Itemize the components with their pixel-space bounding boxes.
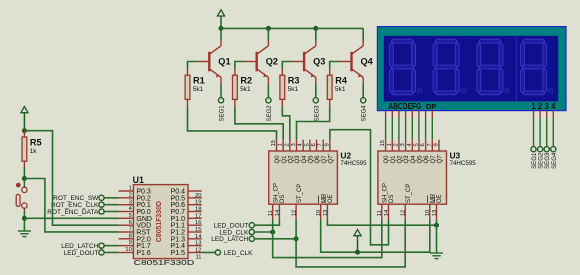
svg-text:3: 3 [129,199,132,205]
pin 17 U1 P0.7 [188,211,202,213]
svg-text:5: 5 [413,143,419,146]
display digit 1 [390,39,422,94]
pin 18 U1 P0.6 [188,204,202,206]
svg-text:11: 11 [195,254,201,260]
junction button / GND [22,216,27,221]
terminal LED_LATCH [99,243,104,248]
svg-text:ST_CP: ST_CP [406,184,412,203]
svg-text:5: 5 [129,213,132,219]
display digit pin 1 to terminal SEG1 [533,111,535,118]
svg-text:14: 14 [384,209,390,216]
svg-text:P1.5: P1.5 [171,250,186,257]
svg-text:5k1: 5k1 [193,86,204,93]
wire rail to Q1 collector [220,28,222,40]
svg-text:U1: U1 [133,175,144,185]
terminal SEG1 right [531,147,536,152]
svg-text:8: 8 [129,233,132,239]
svg-text:3: 3 [545,102,550,111]
ground right [430,253,443,259]
microcontroller U1 C8051F330D [133,185,188,259]
svg-text:DP: DP [426,102,436,111]
svg-text:Q4: Q4 [302,155,308,164]
wire R5 to button [23,168,25,179]
pin 2 U1 P0.2 [119,197,134,199]
svg-text:11: 11 [268,210,274,216]
svg-text:15: 15 [380,140,386,146]
terminal SEG2 right [538,147,543,152]
svg-text:C8051F330D: C8051F330D [156,201,163,242]
svg-text:LED_LATCH: LED_LATCH [211,236,248,243]
power VCC left [21,107,28,131]
svg-text:Q1: Q1 [282,155,288,164]
wire LED_LATCH bus to U3 ST_CP [296,220,405,267]
pin 11 U1 P1.5 [188,252,202,254]
display pin DP to U3 [431,111,433,118]
pin 5 U2 Q5 [309,140,311,151]
svg-text:R1: R1 [193,76,205,86]
wire LED_LATCH to U1 [104,245,118,247]
svg-text:12: 12 [401,210,407,216]
wire R4 to U2 Q3 [297,106,330,140]
wire U2 OE to U3 OE [327,220,436,225]
wire ROT_ENC_SW to U1 [104,197,118,199]
wire rail to Q4 collector [362,28,364,40]
pin 8 U1 P2.0 [119,238,134,240]
wire LED_CLK bus to U3 SH_CP [273,220,382,258]
pin 1 U1 P0.3 [119,190,134,192]
svg-text:OE: OE [437,194,443,203]
svg-text:Q2: Q2 [288,155,294,164]
display 4-digit 7-segment [377,27,566,111]
pin 3 U3 Q3 [405,140,407,151]
svg-text:5k1: 5k1 [288,86,299,93]
svg-text:Q7': Q7' [328,154,334,163]
svg-text:SEG1: SEG1 [532,152,538,169]
pin 14 U2 DS [278,204,280,220]
svg-text:Q3: Q3 [404,155,410,164]
wire U2 MR to U3 MR VCC rail [321,220,430,252]
svg-text:13: 13 [323,210,329,216]
pin 7 U2 Q7 [322,140,324,151]
resistor R2 [233,69,238,107]
wire VCC to U1 VDD [24,131,118,225]
pin 7 U3 Q7 [431,140,433,151]
pin 14 U3 DS [388,204,390,220]
wire to U1 RST [24,179,118,232]
svg-text:OE: OE [328,194,334,203]
wire R2 to U2 Q1 [235,106,283,140]
svg-text:10: 10 [425,210,431,216]
pin 19 U1 P0.5 [188,197,202,199]
wire VCC rail [221,27,363,29]
display digit pin 4 to terminal SEG4 [552,111,554,118]
pin 16 U1 P1.0 [188,217,202,219]
wire Q4 emitter to SEG4 [362,85,364,98]
svg-text:2: 2 [284,143,290,146]
svg-text:SH_CP: SH_CP [273,183,279,203]
wire U3 OE to ground [436,220,438,253]
terminal SEG1 [218,98,223,103]
terminal SEG4 [361,98,366,103]
power VCC top [217,10,224,29]
wire rail to Q2 collector [267,28,269,40]
svg-text:Q7': Q7' [438,154,444,163]
display pin D to U3 [405,111,407,118]
display pin C to U3 [398,111,400,118]
svg-text:5k1: 5k1 [240,86,251,93]
svg-text:74HC595: 74HC595 [450,160,477,167]
svg-text:6: 6 [311,143,317,146]
svg-text:4: 4 [551,102,556,111]
pin 3 U2 Q3 [296,140,298,151]
pin 11 U2 SH_CP [272,204,274,220]
svg-text:Q6: Q6 [315,155,321,164]
junction LED_LATCH / U2 ST_CP [294,236,299,241]
terminal ROT_ENC_SW [99,195,104,200]
svg-text:Q7: Q7 [431,155,437,164]
junction LED_CLK / U2 SH_CP [270,230,275,235]
svg-text:SEG2: SEG2 [539,152,545,169]
wire LED_CLK to U2 SH_CP [255,231,273,233]
svg-text:DS: DS [389,195,395,203]
pin 2 U2 Q2 [289,140,291,151]
svg-text:ROT_ENC_DATA: ROT_ENC_DATA [47,209,99,216]
svg-text:P1.6: P1.6 [136,250,151,257]
svg-text:3: 3 [400,143,406,146]
pin 9 U2 Q7' [329,140,331,151]
resistor R4 [327,69,332,107]
junction rail / Q3 [313,26,318,31]
svg-text:3: 3 [291,143,297,146]
svg-text:SEG3: SEG3 [545,152,551,169]
display pin B to U3 [391,111,393,118]
terminal LED_DOUT right [249,223,254,228]
resistor R1 [185,69,190,107]
svg-text:1: 1 [531,102,536,111]
svg-text:SEG3: SEG3 [314,105,320,122]
junction VCC / MR rail [355,250,360,255]
svg-text:74HC595: 74HC595 [340,160,367,167]
pin 6 U2 Q6 [316,140,318,151]
svg-text:2: 2 [129,192,132,198]
pin 15 U1 P1.1 [188,224,202,226]
svg-text:SEG4: SEG4 [552,152,558,169]
svg-text:11: 11 [377,210,383,216]
wire LED_LATCH to U2 ST_CP [255,238,297,240]
pin 4 U1 P0.0 [119,211,134,213]
display digit pin 3 to terminal SEG3 [546,111,548,118]
svg-text:10: 10 [125,247,131,253]
wire Q2 emitter to SEG2 [267,85,269,98]
transistor Q3 [292,41,316,85]
pin 6 U1 VDD [119,224,134,226]
pin 6 U3 Q6 [425,140,427,151]
pin 13 U1 P1.3 [188,238,202,240]
wire U1 P1.5 to LED_CLK [202,251,215,253]
svg-text:9: 9 [129,240,132,246]
svg-text:6: 6 [129,220,132,226]
wire to ground left [23,218,25,231]
terminal LED_DOUT [99,250,104,255]
svg-text:LED_DOUT: LED_DOUT [64,250,99,257]
svg-text:Q2: Q2 [398,155,404,164]
wire R2 to Q2 base [235,62,245,69]
terminal SEG2 [266,98,271,103]
svg-text:SEG2: SEG2 [267,105,273,122]
pin 5 U1 GND [119,217,134,219]
svg-text:U3: U3 [450,150,461,160]
svg-text:Q5: Q5 [418,155,424,164]
terminal LED_CLK [215,250,220,255]
svg-text:14: 14 [275,209,281,216]
ground left [18,231,31,237]
svg-text:7: 7 [427,143,433,146]
wire R3 to Q3 base [282,62,292,69]
svg-text:R5: R5 [30,137,42,147]
pin 10 U3 MR [429,204,431,220]
junction VCC / R5 / VDD [22,128,27,133]
pin 7 U1 RST [119,231,134,233]
svg-text:SH_CP: SH_CP [383,183,389,203]
svg-text:5: 5 [304,143,310,146]
pin 10 U1 P1.6 [119,252,134,254]
terminal ROT_ENC_CLK [99,202,104,207]
terminal LED_CLK right [249,229,254,234]
svg-text:Q1: Q1 [218,57,230,67]
resistor R3 [280,69,285,107]
junction OE / ground [434,223,439,228]
transistor Q1 [197,41,221,85]
svg-text:13: 13 [432,210,438,216]
svg-text:15: 15 [271,140,277,146]
svg-text:Q4: Q4 [411,155,417,164]
IC U3 74HC595 [378,151,447,204]
wire LED_DOUT to U2 DS [255,220,280,225]
pin 9 U3 Q7' [438,140,440,151]
pin 12 U2 ST_CP [295,204,297,220]
pin 1 U3 Q1 [391,140,393,151]
svg-text:Q3: Q3 [313,57,325,67]
wire Q3 emitter to SEG3 [315,85,317,98]
pin 15 U3 Q0 [385,140,387,151]
wire rail to Q3 collector [315,28,317,40]
svg-text:5k1: 5k1 [335,86,346,93]
svg-text:R4: R4 [335,76,348,86]
terminal SEG3 [313,98,318,103]
display pin F to U3 [418,111,420,118]
wire R1 to U2 Q0 [188,106,277,140]
svg-text:MR: MR [431,193,437,203]
terminal LED_LATCH right [249,236,254,241]
terminal ROT_ENC_DATA [99,209,104,214]
pin 12 U1 P1.4 [188,245,202,247]
pin 9 U1 P1.7 [119,245,134,247]
svg-text:DS: DS [280,195,286,203]
wire R4 to Q4 base [330,62,340,69]
svg-text:6: 6 [420,143,426,146]
svg-text:Q7: Q7 [322,155,328,164]
wire GND to U1 [24,217,118,219]
svg-text:Q4: Q4 [361,57,374,67]
junction rail / Q2 [266,26,271,31]
terminal SEG4 right [551,147,556,152]
svg-text:SEG4: SEG4 [362,105,368,122]
pin 10 U2 MR [320,204,322,220]
svg-text:Q5: Q5 [308,155,314,164]
transistor Q2 [245,41,269,85]
svg-text:Q1: Q1 [391,155,397,164]
wire button to GND net [23,212,25,219]
svg-text:Q0: Q0 [384,155,390,164]
svg-text:ST_CP: ST_CP [297,184,303,203]
button (reset) [16,179,27,212]
svg-text:10: 10 [316,210,322,216]
junction VCC rail / Q1 [219,26,224,31]
pin 13 U3 OE [436,204,438,220]
pin 11 U3 SH_CP [381,204,383,220]
svg-text:1k: 1k [30,148,38,155]
display pin A to U3 [385,111,387,118]
svg-text:R2: R2 [240,76,252,86]
svg-text:7: 7 [318,143,324,146]
pin 15 U2 Q0 [276,140,278,151]
transistor Q4 [340,41,364,85]
wire Q1 emitter to SEG1 [220,85,222,98]
display digit pin 2 to terminal SEG2 [539,111,541,118]
svg-text:1: 1 [129,186,132,192]
svg-text:LED_CLK: LED_CLK [224,250,254,257]
display digit 2 [433,39,465,94]
pin 14 U1 P1.2 [188,231,202,233]
pin 2 U3 Q2 [398,140,400,151]
svg-text:Q0: Q0 [275,155,281,164]
wire LED_DOUT to U1 [104,251,118,253]
svg-text:U2: U2 [340,150,351,160]
svg-text:SEG1: SEG1 [220,105,226,122]
pin 13 U2 OE [326,204,328,220]
resistor R5 [23,131,25,137]
wire U2 Q7' to U3 DS [330,130,389,245]
display pin E to U3 [411,111,413,118]
svg-text:MR: MR [321,193,327,203]
pin 3 U1 P0.1 [119,204,134,206]
pin 1 U2 Q1 [282,140,284,151]
svg-text:R3: R3 [288,76,300,86]
display pin G to U3 [425,111,427,118]
svg-text:2: 2 [538,102,543,111]
junction R5 / button / RST [22,176,27,181]
display digit 4 [521,39,553,94]
svg-text:1: 1 [278,143,284,146]
svg-text:Q2: Q2 [266,57,278,67]
IC U2 74HC595 [269,151,338,204]
pin 20 U1 P0.4 [188,190,202,192]
svg-text:9: 9 [324,143,330,146]
svg-text:1: 1 [387,143,393,146]
svg-text:2: 2 [393,143,399,146]
wire R3 to U2 Q2 [282,106,290,140]
svg-text:C8051F330D: C8051F330D [134,258,195,267]
power VCC middle [354,230,361,253]
svg-text:7: 7 [129,227,132,233]
terminal SEG3 right [544,147,549,152]
pin 5 U3 Q5 [418,140,420,151]
pin 4 U3 Q4 [411,140,413,151]
pin 4 U2 Q4 [302,140,304,151]
svg-text:9: 9 [433,143,439,146]
pin 12 U3 ST_CP [404,204,406,220]
wire ROT_ENC_DATA to U1 [104,210,118,212]
svg-text:ABCDEFG: ABCDEFG [388,102,421,111]
svg-text:12: 12 [292,210,298,216]
wire R1 to Q1 base [188,62,198,69]
wire ROT_ENC_CLK to U1 [104,204,118,206]
svg-text:Q3: Q3 [295,155,301,164]
svg-text:Q6: Q6 [424,155,430,164]
display digit 3 [477,39,509,94]
